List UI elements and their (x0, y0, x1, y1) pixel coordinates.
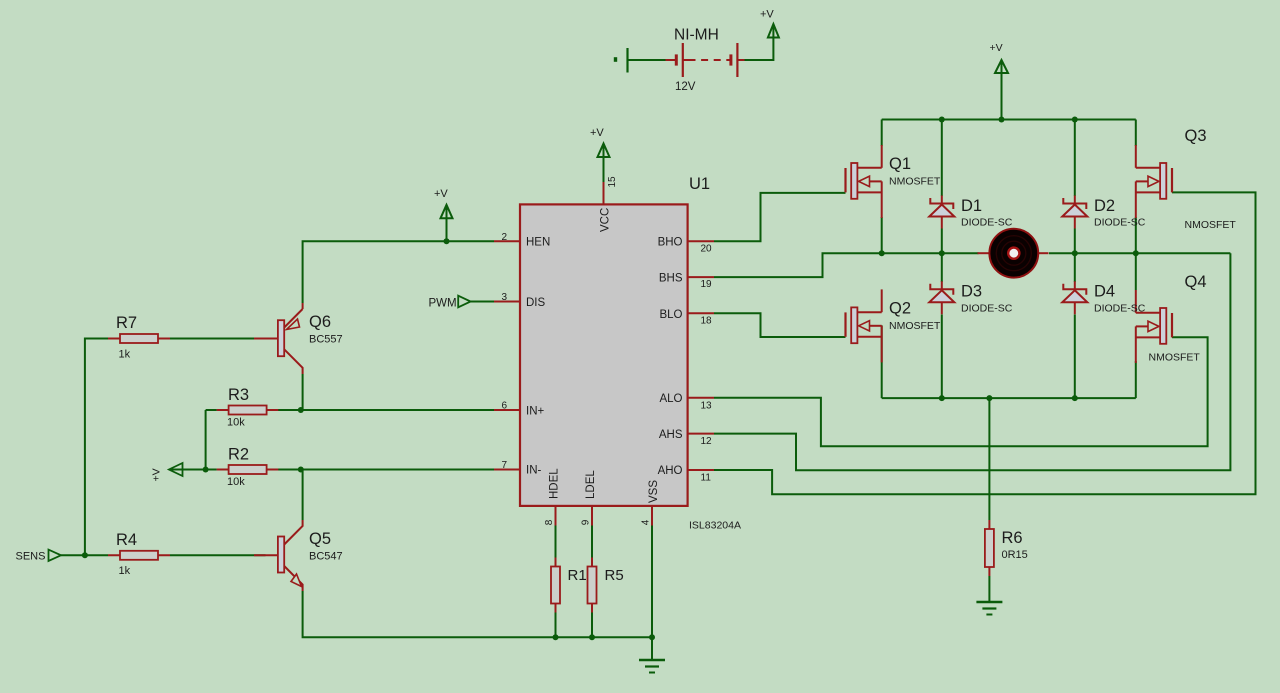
node HEN +V junction (444, 238, 450, 244)
wire R1 to rail (555, 613, 557, 638)
svg-text:AHS: AHS (659, 429, 683, 441)
svg-text:Q6: Q6 (309, 313, 331, 331)
svg-text:VCC: VCC (599, 208, 611, 232)
wire D4 cathode column (1074, 253, 1076, 282)
svg-text:VSS: VSS (648, 480, 660, 503)
wire D1 anode column (941, 229, 943, 254)
svg-text:IN+: IN+ (526, 405, 545, 417)
node bridge right mid junction (1133, 250, 1139, 256)
svg-text:Q2: Q2 (889, 300, 911, 318)
node R6 junction (986, 395, 992, 401)
wire mid rail to motor left (882, 252, 979, 254)
svg-text:ALO: ALO (659, 393, 682, 405)
resistor R6 (988, 520, 990, 576)
node IN+ junction (298, 407, 304, 413)
resistor R4 (108, 554, 170, 556)
svg-text:12: 12 (701, 436, 713, 447)
wire rail to R6 (988, 398, 990, 520)
node pin 15 VCC (603, 182, 605, 204)
wire feedback left vertical (85, 339, 108, 556)
node D3 bottom junction (939, 395, 945, 401)
svg-text:DIODE-SC: DIODE-SC (1094, 303, 1146, 315)
svg-text:18: 18 (701, 315, 713, 326)
svg-text:DIODE-SC: DIODE-SC (1094, 217, 1146, 229)
wire ALO to Q4 gate (714, 337, 1208, 446)
wire Q6 emitter to HEN (303, 241, 494, 303)
wire HEN +V stem (446, 219, 448, 241)
resistor R3 (217, 409, 279, 411)
node pin 9 LDEL (591, 506, 593, 526)
wire R3-R2 vertical (205, 410, 207, 470)
svg-text:DIODE-SC: DIODE-SC (961, 303, 1013, 315)
node SENS input terminal (49, 550, 62, 561)
svg-text:1k: 1k (119, 565, 131, 577)
wire R3 left (206, 409, 217, 411)
svg-text:PWM: PWM (429, 298, 457, 310)
wire +V stem (bridge) (1001, 62, 1003, 120)
svg-text:Q5: Q5 (309, 530, 331, 548)
node pin 13 ALO (688, 397, 714, 399)
node R5 rail junction (589, 634, 595, 640)
wire LDEL to R5 (591, 526, 593, 558)
node R2/R3 junction (203, 467, 209, 473)
diode D2 DIODE-SC (1074, 196, 1076, 204)
node pin 7 IN- (494, 469, 520, 471)
svg-text:D2: D2 (1094, 197, 1115, 215)
svg-text:Q3: Q3 (1185, 127, 1207, 145)
svg-text:DIODE-SC: DIODE-SC (961, 217, 1013, 229)
node pin 6 IN+ (494, 409, 520, 411)
svg-text:10k: 10k (227, 417, 245, 429)
svg-text:U1: U1 (689, 175, 710, 193)
svg-text:NMOSFET: NMOSFET (889, 176, 941, 188)
diode D4 DIODE-SC (1074, 281, 1076, 289)
svg-text:NI-MH: NI-MH (674, 27, 719, 44)
wire top rail (882, 119, 1136, 121)
svg-text:D3: D3 (961, 283, 982, 301)
wire VSS to ground (651, 526, 653, 661)
svg-text:19: 19 (701, 279, 713, 290)
wire D1 cathode column (941, 120, 943, 197)
svg-text:+V: +V (434, 188, 448, 200)
node R1 rail junction (553, 634, 559, 640)
svg-text:NMOSFET: NMOSFET (1185, 219, 1237, 231)
resistor R1 (555, 558, 557, 613)
transistor Q4 NMOSFET (1171, 313, 1173, 337)
wire bottom rail (882, 397, 1136, 399)
node pin 8 HDEL (555, 506, 557, 526)
node top rail +V junction (999, 117, 1005, 123)
transistor Q2 NMOSFET (844, 312, 846, 336)
wire Q1 source down (881, 217, 883, 253)
svg-text:12V: 12V (675, 81, 696, 93)
wire motor right to AHS column (1049, 252, 1230, 254)
svg-text:BC547: BC547 (309, 551, 343, 563)
svg-text:9: 9 (581, 519, 592, 525)
svg-text:NMOSFET: NMOSFET (889, 320, 941, 332)
op-amp U1 ISL83204A body (520, 204, 688, 506)
ground (R6) (976, 601, 1002, 604)
svg-text:AHO: AHO (658, 465, 683, 477)
svg-text:R2: R2 (228, 446, 249, 464)
node PWM input terminal (458, 296, 470, 308)
wire HDEL to R1 (555, 526, 557, 558)
wire D4 anode column (1074, 315, 1076, 399)
wire R2 row to IN- (278, 469, 494, 471)
wire Q4 drain up (1135, 253, 1137, 290)
svg-text:+V: +V (590, 127, 604, 139)
wire Q5 emitter to ground rail (303, 591, 652, 637)
svg-text:R4: R4 (116, 531, 137, 549)
svg-text:BC557: BC557 (309, 334, 343, 346)
+V power (battery) (768, 24, 779, 38)
svg-text:8: 8 (544, 519, 555, 525)
svg-text:LDEL: LDEL (585, 470, 597, 499)
node D1/D3 mid junction (939, 250, 945, 256)
svg-text:R5: R5 (605, 567, 624, 584)
node SENS junction (82, 552, 88, 558)
svg-text:+V: +V (151, 468, 163, 481)
svg-text:11: 11 (701, 473, 712, 484)
node pin 20 BHO (688, 240, 714, 242)
svg-text:+V: +V (760, 9, 774, 21)
resistor R7 (108, 338, 170, 340)
node pin 3 DIS (494, 301, 520, 303)
wire Q3 drain up (1135, 120, 1137, 147)
transistor Q3 NMOSFET (1171, 168, 1173, 192)
node D4 bottom junction (1072, 395, 1078, 401)
wire battery left (629, 59, 666, 61)
wire R7 to Q6 base (170, 338, 266, 340)
svg-text:15: 15 (607, 176, 618, 188)
wire SENS to R4 (61, 554, 108, 556)
svg-text:HEN: HEN (526, 237, 550, 249)
node VSS rail junction (649, 634, 655, 640)
wire R4 to Q5 base (170, 554, 266, 556)
svg-text:ISL83204A: ISL83204A (689, 520, 741, 532)
wire battery to +V (745, 36, 774, 60)
node pin 11 AHO (688, 469, 714, 471)
wire D2 anode column (1074, 229, 1076, 254)
svg-text:20: 20 (701, 243, 713, 254)
wire R5 to rail (591, 613, 593, 638)
svg-text:R6: R6 (1002, 529, 1023, 547)
svg-text:+V: +V (990, 42, 1003, 54)
node pin 2 HEN (494, 240, 520, 242)
svg-text:0R15: 0R15 (1002, 549, 1028, 561)
svg-text:13: 13 (701, 400, 713, 411)
resistor R2 (217, 469, 279, 471)
svg-text:10k: 10k (227, 476, 245, 488)
wire Q2 source down (881, 325, 883, 398)
battery BT1 NI-MH 12V (666, 59, 677, 61)
+V power (VCC) (598, 144, 610, 158)
wire Q1 drain up (881, 120, 883, 147)
wire BLO to Q2 gate (714, 313, 846, 337)
svg-text:BLO: BLO (659, 309, 682, 321)
svg-text:R3: R3 (228, 386, 249, 404)
wire BHO to Q1 gate (714, 193, 846, 241)
svg-text:Q4: Q4 (1185, 273, 1207, 291)
diode D1 DIODE-SC (941, 196, 943, 204)
wire Q3 source down (1135, 217, 1137, 253)
svg-text:6: 6 (502, 400, 508, 411)
wire D3 cathode column (941, 253, 943, 282)
wire R6 to ground (988, 576, 990, 602)
transistor Q6 BC557 (278, 320, 284, 356)
node pin 19 BHS (688, 276, 714, 278)
wire VCC to +V (603, 157, 605, 182)
svg-text:2: 2 (502, 232, 508, 243)
svg-text:SENS: SENS (16, 551, 46, 563)
node D2 top junction (1072, 117, 1078, 123)
node pin 18 BLO (688, 312, 714, 314)
+V power (HEN) (441, 205, 453, 219)
wire R3 row to IN+ (278, 409, 494, 411)
svg-text:BHO: BHO (658, 237, 683, 249)
svg-text:DIS: DIS (526, 297, 546, 309)
wire AHO to Q3 gate (714, 192, 1256, 494)
node bridge left mid junction (879, 250, 885, 256)
node pin 12 AHS (688, 433, 714, 435)
resistor R5 (591, 558, 593, 613)
svg-text:Q1: Q1 (889, 155, 911, 173)
wire D3 anode column (941, 315, 943, 399)
node pin 4 VSS (651, 506, 653, 526)
wire D2 cathode column (1074, 120, 1076, 197)
node IN- junction (298, 467, 304, 473)
node battery left terminal (614, 57, 617, 62)
+V power (bridge) (995, 60, 1008, 73)
motor M1 (978, 252, 991, 254)
wire PWM to DIS (471, 301, 494, 303)
svg-text:3: 3 (502, 292, 508, 303)
wire Q6 collector down (302, 374, 304, 410)
svg-text:HDEL: HDEL (549, 468, 561, 499)
wire AHS to bridge (714, 253, 1230, 470)
+V power (left, pointing left) (169, 463, 183, 476)
svg-text:IN-: IN- (526, 465, 542, 477)
diode D3 DIODE-SC (941, 281, 943, 289)
wire BHS to bridge (714, 253, 882, 277)
ground (VSS) (639, 659, 665, 662)
wire Q4 source down (1135, 361, 1137, 398)
svg-text:4: 4 (641, 519, 652, 525)
svg-text:D4: D4 (1094, 283, 1115, 301)
wire Q5 collector up (302, 470, 304, 521)
node D1 top junction (939, 117, 945, 123)
transistor Q1 NMOSFET (844, 168, 846, 192)
svg-text:D1: D1 (961, 197, 982, 215)
node D2/D4 mid junction (1072, 250, 1078, 256)
svg-text:7: 7 (502, 460, 508, 471)
svg-text:R1: R1 (568, 567, 587, 584)
svg-text:BHS: BHS (659, 272, 683, 284)
transistor Q5 BC547 (278, 537, 284, 573)
svg-text:NMOSFET: NMOSFET (1149, 352, 1201, 364)
wire +V to R2 (171, 469, 217, 471)
svg-text:1k: 1k (119, 349, 131, 361)
svg-text:R7: R7 (116, 314, 137, 332)
